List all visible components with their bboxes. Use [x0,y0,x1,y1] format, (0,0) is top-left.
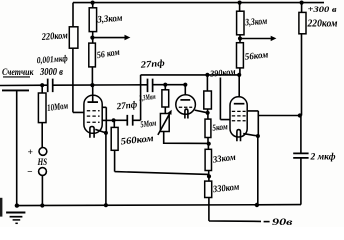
node junction counter/ground [15,203,19,207]
resistor 5ком [205,119,211,137]
svg-text:HS: HS [37,157,47,168]
wire V3 screen lead right [247,111,258,136]
svg-text:5Мом: 5Мом [140,118,157,130]
wire 56k left bottom to node [91,67,93,85]
node junction arrow tap right [238,36,242,40]
node junction 33k/330k/560k [207,174,211,178]
wire 560k top [113,120,115,127]
wire 220k right bottom [300,34,303,154]
wire 220k left bottom down to grid corner [73,48,84,112]
svg-text:3,3ком: 3,3ком [96,13,123,26]
wire V1 g2 lead to 560k node [102,119,113,121]
resistor 390ком [204,91,212,109]
node junction top rail / 3.3k left [91,1,95,5]
resistor 33ком [205,149,211,170]
wire output arrow (left) [92,37,124,39]
wire V2 anode lead [184,85,186,100]
svg-text:27пф: 27пф [139,58,165,71]
svg-text:−: − [27,167,33,177]
resistor 5Мом variable [160,114,169,132]
node junction 3.3M top [163,83,167,87]
capacitor 27пф (upper) [148,79,153,93]
counter tube electrode bar [2,89,29,91]
node junction top rail / 220k right [300,1,304,5]
resistor 220ком (right) [299,12,306,33]
node junction 10M tap [40,83,44,87]
wire rail to 3.3k right [239,3,241,12]
terminal + of HS supply [39,148,47,156]
wire 3.3M to 5M [164,107,166,114]
node junction 56k/anode/main wire [90,83,94,87]
resistor 3,3Мом [162,90,169,107]
tube V1 cathode [90,127,94,138]
node junction screen supply / 220k right / 2uF [298,113,302,117]
wire ground rail [17,205,301,206]
wire 330k top stub [208,176,210,181]
wire +300V top rail [73,2,324,4]
wire 5k top stub [207,113,209,119]
tube V1 envelope [84,95,102,133]
edge smudge [0,198,2,217]
svg-text:27пф: 27пф [115,99,138,112]
wire V3 cathode to ground [257,136,259,205]
terminal - of HS supply [39,168,47,176]
wire 5k bottom stub [207,138,209,144]
wire 330k bottom to -90V [209,198,261,222]
node junction V1 cathode/ground [104,203,108,207]
wire 390k bottom stub [207,109,209,113]
wire 3.3k right bottom [239,35,241,43]
resistor 220ком (left) [69,27,78,48]
wire feedback top (to tube V3 anode) [141,74,240,76]
svg-text:2 мкф: 2 мкф [310,151,336,162]
tube V3 envelope [230,97,247,137]
svg-text:90в: 90в [272,217,294,227]
tube V2 cathode [185,109,188,118]
svg-text:Счетчик: Счетчик [2,67,34,77]
svg-text:+300 в: +300 в [308,5,337,14]
node junction V1 cathode [104,131,108,135]
svg-text:3000 в: 3000 в [39,67,63,78]
node junction V3 cathode [256,134,260,138]
svg-text:220ком: 220ком [41,30,69,43]
resistor 3,3ком (left) [89,8,96,32]
wire V2 anode rail [153,84,186,86]
resistor 560ком [111,127,118,150]
svg-text:220ком: 220ком [307,18,338,29]
wire V1 screen lead right [102,107,106,133]
wire 33k top stub [207,144,209,150]
node junction arrow tap left [90,36,94,40]
ground [6,212,25,214]
wire V1 anode lead [92,85,94,102]
wire output arrow (right) [240,38,271,40]
wire node to cap 27pf lower [114,119,128,121]
node junction V3 anode / 56k [237,73,241,77]
wire 2uF bottom to ground [300,158,302,205]
wire cap 27pf lower to feedback riser [133,75,141,120]
wire 5M bottom to 5k node [164,132,209,144]
wire screen supply [258,115,299,117]
wire 3.3M top stub [164,85,166,91]
wire 3.3k to 56k left [92,32,94,43]
tube V1 anode bar [88,101,99,103]
svg-text:+: + [28,148,33,158]
wire rail to 220k right [301,3,303,13]
wire V2 cathode lead [195,110,208,113]
wire - terminal to ground rail [41,176,43,206]
node junction V2 cathode / 390k / 5k [206,111,210,115]
wire 56k right bottom to V3 anode [238,68,241,104]
tube V3 grid dashes [232,110,246,112]
wire 33k bottom stub [208,171,210,177]
tube V1 grid dashes [87,110,100,112]
wire -90V dash [264,221,270,223]
wire rail to 3.3k left [92,3,94,8]
tube V3 anode bar [234,103,245,105]
tube V2 grid dash [179,106,192,108]
resistor 3,3ком (right) [237,11,244,35]
node junction 390k top [205,73,209,77]
wire counter cathode stem [16,90,18,205]
tube V2 envelope [176,95,196,115]
capacitor 2мкф [293,153,308,158]
capacitor 27пф (lower) [127,115,132,126]
wire V3 grid lead left [220,78,230,120]
node junction V2 anode [183,83,187,87]
node junction 560k / 27pf [112,118,116,122]
wire 10M bottom to + terminal [41,123,43,148]
wire 10M top [41,85,43,93]
svg-text:5ком: 5ком [212,121,228,133]
node junction 5k/33k/5M [207,142,211,146]
node junction V3 cathode / ground [255,203,259,207]
resistor 330ком [205,181,212,197]
node junction HS-/ground [40,203,44,207]
capacitor 0,001мкф 3000в [48,79,53,93]
wire V1 cathode to ground [105,133,107,205]
resistor 56ком (right) [237,43,244,68]
resistor 56ком (left) [89,43,96,67]
tube V3 cathode [237,130,241,142]
wire main signal from counter [0,84,147,87]
tube V2 anode bar [180,99,190,101]
node junction top rail / 3.3k right [238,1,242,5]
resistor 10Мом [38,93,46,123]
svg-text:3,3ком: 3,3ком [244,16,268,29]
wire 560k bottom to 33k node [115,150,209,174]
wire rail to 220k left [72,3,74,27]
wire 390k top stub [206,75,208,91]
